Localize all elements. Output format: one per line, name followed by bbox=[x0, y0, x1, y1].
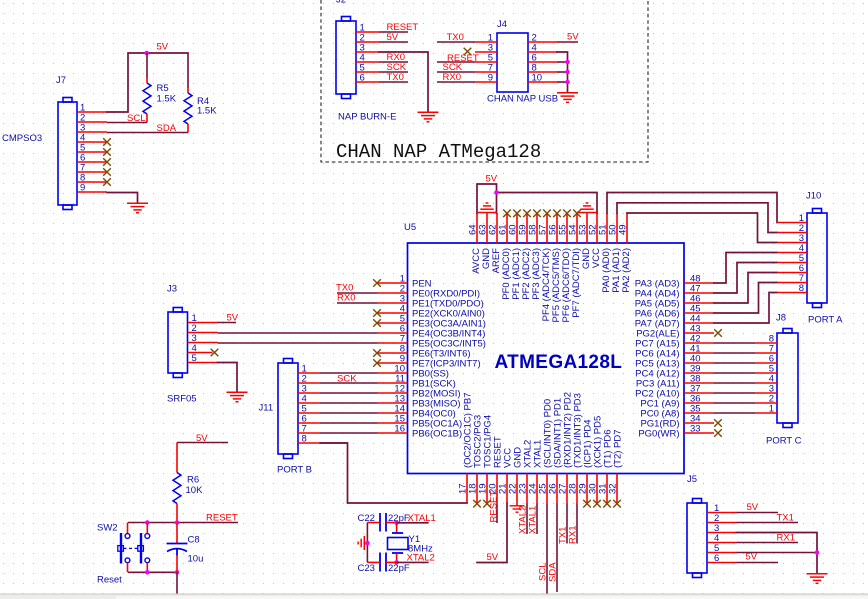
J10 pin 5 bbox=[777, 262, 807, 264]
J4 pin 9 bbox=[475, 81, 497, 83]
junction J4.6 bbox=[565, 60, 570, 65]
U5 pin 48 PA3 (AD3) bbox=[684, 282, 714, 284]
J11 pin 1 bbox=[298, 372, 320, 374]
J4 pin 10 bbox=[528, 81, 557, 83]
wire J11.1 to U5.10 bbox=[320, 372, 378, 374]
wire J4.8 to ground bus bbox=[557, 71, 568, 73]
svg-text:49: 49 bbox=[618, 224, 629, 235]
svg-text:J5: J5 bbox=[687, 474, 697, 485]
svg-text:SRF05: SRF05 bbox=[167, 394, 197, 405]
U5 pin 27 (RXD1/INT2) PD2 bbox=[566, 474, 568, 504]
U5 pin 31 (T1) PD6 bbox=[606, 474, 608, 504]
wire 5V U5.21 VCC bbox=[477, 504, 507, 563]
U5 pin 38 PC3 (A11) bbox=[684, 382, 714, 384]
connector J4 body bbox=[497, 33, 528, 92]
no-connect X on J7 pin 4 bbox=[103, 138, 111, 146]
svg-text:5V: 5V bbox=[746, 552, 758, 563]
no-connect X on U5 bottom pin bbox=[603, 500, 611, 508]
svg-text:PA2 (AD2): PA2 (AD2) bbox=[621, 248, 632, 293]
ground at crystal (rotated left) bbox=[358, 536, 364, 550]
no-connect X on U5 top pin bbox=[573, 210, 581, 218]
junction RESET at R6/C8 bbox=[175, 520, 180, 525]
J5 pin 3 bbox=[707, 532, 737, 534]
wire ground net down bbox=[176, 572, 178, 593]
window edge strip bbox=[0, 594, 868, 599]
U5 pin 36 PC1 (A9) bbox=[684, 402, 714, 404]
no-connect X on U5 left pin bbox=[373, 319, 381, 327]
U5 pin 23 XTAL2 bbox=[526, 474, 528, 504]
wire J11.3 to U5.12 bbox=[320, 392, 378, 394]
junction XTAL2 at C23 bbox=[394, 560, 399, 565]
J11 pin 8 bbox=[298, 442, 320, 444]
svg-text:RX0: RX0 bbox=[337, 293, 355, 304]
svg-text:5V: 5V bbox=[227, 313, 239, 324]
svg-text:J7: J7 bbox=[56, 75, 66, 86]
connector J3 body bbox=[168, 312, 188, 373]
ground at J2 pin3 bbox=[418, 112, 439, 122]
svg-text:J10: J10 bbox=[806, 191, 821, 202]
no-connect X on U5 left pin bbox=[373, 279, 381, 287]
J11 pin 7 bbox=[298, 432, 320, 434]
J4 pin 2 bbox=[528, 41, 557, 43]
wire SDA U5.26 bbox=[556, 504, 558, 593]
svg-text:RESET: RESET bbox=[206, 513, 238, 524]
wire J2.6 bbox=[379, 81, 408, 83]
wire U5.42 to J8.8 bbox=[714, 342, 755, 344]
J5 pin 5 bbox=[707, 552, 737, 554]
U5 pin 53 GND bbox=[586, 213, 588, 243]
J5 pin 4 bbox=[707, 542, 737, 544]
no-connect X on J7 pin 7 bbox=[103, 168, 111, 176]
wire RESET U5.20 bbox=[496, 504, 498, 524]
connector J2 body bbox=[336, 21, 356, 94]
wire U5.41 to J8.7 bbox=[714, 352, 755, 354]
wire TX1 J5.2 bbox=[737, 522, 799, 524]
U5 pin 2 PE0(RXD0/PDI) bbox=[378, 292, 408, 294]
svg-text:5V: 5V bbox=[196, 433, 208, 444]
J7 pin 4 bbox=[77, 141, 107, 143]
connector J11 body bbox=[278, 363, 298, 454]
ground at U5.22 GND (small, rotated) bbox=[516, 504, 518, 506]
wire J3.5 to ground bbox=[218, 363, 238, 393]
wire XTAL2 bbox=[397, 561, 429, 563]
U5 pin 20 RESET bbox=[496, 474, 498, 504]
wire J11.2 to U5.11 bbox=[320, 382, 378, 384]
wire J11.4 to U5.13 bbox=[320, 402, 378, 404]
wire 5V rail at R6 bbox=[177, 442, 228, 444]
wire U5.36 to J8.2 bbox=[714, 402, 755, 404]
wire SDA J7.3 bbox=[107, 132, 188, 134]
wire J2.5 bbox=[379, 71, 408, 73]
U5 pin 35 PC0 (A8) bbox=[684, 412, 714, 414]
svg-text:J3: J3 bbox=[167, 284, 177, 295]
wire J4.4 to ground bus bbox=[557, 52, 568, 93]
J4 pin 8 bbox=[528, 71, 557, 73]
U5 pin 33 PG0(WR) bbox=[684, 432, 714, 434]
wire J2.1 bbox=[379, 31, 408, 33]
J8 pin 3 bbox=[755, 392, 777, 394]
wire XTAL2 U5.23 bbox=[526, 504, 528, 535]
wire SCK J4.7 bbox=[437, 71, 475, 73]
wire U5.38 to J8.4 bbox=[714, 382, 755, 384]
wire J2.4 bbox=[379, 61, 408, 63]
svg-text:9: 9 bbox=[80, 183, 85, 194]
svg-text:R5: R5 bbox=[157, 83, 169, 94]
svg-text:9: 9 bbox=[488, 73, 493, 84]
svg-text:33: 33 bbox=[690, 424, 701, 435]
J8 pin 6 bbox=[755, 362, 777, 364]
wire J5.3 to ground bbox=[737, 533, 818, 574]
U5 pin 19 TOSC1/PG4 bbox=[486, 474, 488, 504]
U5 pin 56 PF5 (ADC5/TMS) bbox=[556, 213, 558, 243]
svg-text:1.5K: 1.5K bbox=[197, 106, 217, 117]
J8 pin 7 bbox=[755, 352, 777, 354]
svg-text:RX1: RX1 bbox=[568, 526, 579, 544]
svg-text:PORT B: PORT B bbox=[277, 465, 312, 476]
wire J4.10 to ground bus bbox=[557, 81, 568, 83]
ground at J4 bbox=[557, 93, 578, 103]
wire RESET rail bbox=[128, 522, 238, 524]
svg-text:5V: 5V bbox=[387, 32, 399, 43]
junction J5.5 bbox=[815, 550, 820, 555]
U5 pin 62 AREF bbox=[496, 213, 498, 243]
U5 pin 15 PB5(OC1A) bbox=[378, 422, 408, 424]
ground at J3.5 bbox=[227, 392, 248, 402]
wire RX1 J5.4 bbox=[737, 542, 799, 544]
J2 pin 2 bbox=[356, 41, 379, 43]
wire U5.40 to J8.6 bbox=[714, 362, 755, 364]
wire J4.6 to ground bus bbox=[557, 61, 568, 63]
wire U5.17 PB7 to J11.8 bbox=[320, 443, 467, 503]
U5 pin 28 (TXD1/INT3) PD3 bbox=[576, 474, 578, 504]
J2 pin 5 bbox=[356, 71, 379, 73]
J3 pin 2 bbox=[188, 332, 218, 334]
no-connect X on J4 pin3 bbox=[464, 48, 472, 56]
U5 pin 45 PA6 (AD6) bbox=[684, 312, 714, 314]
wire J2.2 bbox=[379, 41, 408, 43]
U5 pin 61 PF0 (ADC0) bbox=[506, 213, 508, 243]
resistor R4 bbox=[187, 53, 189, 88]
U5 pin 51 PA0 (AD0) bbox=[606, 213, 608, 243]
wire TX1 U5.27 bbox=[566, 504, 568, 544]
J4 pin 3 bbox=[475, 51, 497, 53]
U5 pin 6 PE4(OC3B/INT4) bbox=[378, 332, 408, 334]
dashed box CHAN NAP ATMega128 block bbox=[321, 0, 648, 162]
wire J2.3 to ground bbox=[379, 52, 428, 112]
U5 pin 59 PF2 (ADC2) bbox=[526, 213, 528, 243]
svg-text:XTAL1: XTAL1 bbox=[408, 513, 436, 524]
U5 pin 47 PA4 (AD4) bbox=[684, 292, 714, 294]
svg-text:5V: 5V bbox=[157, 42, 169, 53]
svg-text:22pF: 22pF bbox=[388, 563, 410, 574]
wire U5.48 to J10.4 bbox=[714, 253, 777, 284]
no-connect X on U5 bottom pin bbox=[483, 500, 491, 508]
no-connect X on U5 right pin bbox=[714, 329, 722, 337]
no-connect X on J7 pin 5 bbox=[103, 148, 111, 156]
U5 pin 16 PB6(OC1B) bbox=[378, 432, 408, 434]
J11 pin 5 bbox=[298, 412, 320, 414]
svg-text:RX1: RX1 bbox=[777, 533, 795, 544]
no-connect X on J7 pin 8 bbox=[103, 178, 111, 186]
switch SW2 bbox=[118, 523, 150, 573]
junction J4.10 bbox=[565, 80, 570, 85]
wire J7.9 to ground bbox=[107, 193, 138, 204]
svg-text:5V: 5V bbox=[487, 552, 499, 563]
IC U5 ATMEGA128L body bbox=[408, 243, 685, 474]
U5 pin 18 TOSC2/PG3 bbox=[476, 474, 478, 504]
svg-text:10K: 10K bbox=[186, 485, 204, 496]
U5 pin 46 PA5 (AD5) bbox=[684, 302, 714, 304]
wire U5.44 to J10.8 bbox=[714, 293, 777, 324]
J8 pin 8 bbox=[755, 342, 777, 344]
svg-text:6: 6 bbox=[360, 73, 365, 84]
svg-text:(T2) PD7: (T2) PD7 bbox=[613, 429, 624, 468]
J4 pin 1 bbox=[475, 41, 497, 43]
svg-text:RESET: RESET bbox=[489, 491, 500, 523]
svg-text:PB6(OC1B): PB6(OC1B) bbox=[412, 429, 462, 440]
no-connect X on U5 top pin bbox=[513, 210, 521, 218]
no-connect X on U5 top pin bbox=[543, 210, 551, 218]
U5 pin 37 PC2 (A10) bbox=[684, 392, 714, 394]
J7 pin 9 bbox=[77, 191, 107, 193]
resistor R5 bbox=[146, 53, 148, 78]
svg-text:SW2: SW2 bbox=[97, 523, 118, 534]
J2 pin 6 bbox=[356, 81, 379, 83]
no-connect X on U5 top pin bbox=[563, 210, 571, 218]
svg-text:SDA: SDA bbox=[157, 123, 177, 134]
U5 pin 29 (ICP1) PD4 bbox=[586, 474, 588, 504]
U5 pin 63 GND bbox=[486, 213, 488, 243]
J5 pin 1 bbox=[707, 512, 737, 514]
resistor R6 bbox=[176, 443, 178, 473]
svg-text:8: 8 bbox=[302, 434, 307, 445]
svg-text:XTAL1: XTAL1 bbox=[528, 506, 539, 534]
svg-text:C22: C22 bbox=[358, 513, 375, 524]
wire J5.5 to ground bus bbox=[737, 552, 818, 554]
U5 pin 24 XTAL1 bbox=[536, 474, 538, 504]
svg-text:U5: U5 bbox=[404, 222, 416, 233]
junction on 5V rail at R5 bbox=[144, 51, 149, 56]
J7 pin 3 bbox=[77, 131, 107, 133]
no-connect X on U5 left pin bbox=[373, 359, 381, 367]
connector J7 body bbox=[58, 102, 77, 205]
J5 pin 2 bbox=[707, 522, 737, 524]
svg-text:CMPSO3: CMPSO3 bbox=[2, 133, 42, 144]
U5 pin 10 PB0(SS) bbox=[378, 372, 408, 374]
wire RX0 J4.9 bbox=[437, 81, 475, 83]
J3 pin 5 bbox=[188, 362, 218, 364]
svg-text:8: 8 bbox=[799, 283, 804, 294]
capacitor C23 bbox=[379, 553, 381, 572]
wire 5V J4.2 bbox=[557, 41, 578, 43]
U5 pin 9 PE7(ICP3/INT7) bbox=[378, 362, 408, 364]
junction SW2 bottom right bbox=[145, 570, 150, 575]
svg-text:Reset: Reset bbox=[97, 575, 122, 586]
U5 pin 11 PB1(SCK) bbox=[378, 382, 408, 384]
svg-text:5V: 5V bbox=[486, 174, 498, 185]
junction RESET at SW2 right bbox=[145, 520, 150, 525]
wire U5.46 to J10.6 bbox=[714, 273, 777, 304]
U5 pin 14 PB4(OC0) bbox=[378, 412, 408, 414]
wire TX0 J4.1 bbox=[437, 41, 475, 43]
wire U5.35 to J8.1 bbox=[714, 412, 755, 414]
no-connect X on U5 left pin bbox=[373, 309, 381, 317]
wire 5V J3.1 bbox=[218, 322, 237, 324]
svg-text:1.5K: 1.5K bbox=[157, 94, 177, 105]
svg-text:SDA: SDA bbox=[548, 562, 559, 582]
wire J3.2 to U5.6 bbox=[218, 332, 378, 334]
J10 pin 6 bbox=[777, 272, 807, 274]
wire J11.7 to U5.16 bbox=[320, 432, 378, 434]
U5 pin 60 PF1 (ADC1) bbox=[516, 213, 518, 243]
ground at U5 pin63 (inverted) bbox=[477, 203, 497, 213]
U5 pin 5 PE3(OC3A/AIN1) bbox=[378, 322, 408, 324]
svg-text:10u: 10u bbox=[188, 554, 204, 565]
capacitor C22 bbox=[379, 513, 381, 532]
wire 5V J5.6 bbox=[737, 562, 779, 564]
wire PA1 U5.50 to J10.2 bbox=[617, 203, 777, 233]
wire SW2 bottom to C8 bbox=[128, 571, 177, 573]
wire U5.37 to J8.3 bbox=[714, 392, 755, 394]
junction 5V at AREF riser bbox=[494, 190, 499, 195]
svg-text:TX1: TX1 bbox=[777, 513, 794, 524]
U5 pin 30 (XCK1) PD5 bbox=[596, 474, 598, 504]
wire J7.1 to 5V rail bbox=[107, 53, 188, 112]
svg-text:SCK: SCK bbox=[337, 374, 357, 385]
J8 pin 1 bbox=[755, 412, 777, 414]
U5 pin 44 PA7 (AD7) bbox=[684, 322, 714, 324]
junction at C8 bottom bbox=[175, 570, 180, 575]
wire XTAL1 U5.24 bbox=[536, 504, 538, 535]
svg-text:5V: 5V bbox=[567, 32, 579, 43]
wire J11.5 to U5.14 bbox=[320, 412, 378, 414]
J11 pin 3 bbox=[298, 392, 320, 394]
wire SCL J7.2 bbox=[107, 122, 147, 124]
U5 pin 12 PB2(MOSI) bbox=[378, 392, 408, 394]
wire U5.45 to J10.7 bbox=[714, 283, 777, 314]
J2 pin 4 bbox=[356, 61, 379, 63]
U5 pin 40 PC5 (A13) bbox=[684, 362, 714, 364]
wire PA2 U5.49 to J10.3 bbox=[627, 213, 777, 243]
U5 pin 43 PG2(ALE) bbox=[684, 332, 714, 334]
J3 pin 3 bbox=[188, 342, 218, 344]
J2 pin 1 bbox=[356, 31, 379, 33]
U5 pin 39 PC4 (A12) bbox=[684, 372, 714, 374]
svg-text:TX0: TX0 bbox=[387, 72, 404, 83]
no-connect X on J3 pin4 bbox=[211, 349, 219, 357]
svg-text:10: 10 bbox=[532, 73, 543, 84]
ground at J5 bbox=[807, 574, 828, 584]
no-connect X on U5 top pin bbox=[503, 210, 511, 218]
svg-text:R6: R6 bbox=[187, 475, 199, 486]
U5 pin 13 PB3(MISO) bbox=[378, 402, 408, 404]
J4 pin 7 bbox=[475, 71, 497, 73]
connector J10 body bbox=[807, 213, 827, 303]
connector J8 body bbox=[777, 333, 798, 423]
connector J5 body bbox=[687, 503, 707, 573]
wire J11.6 to U5.15 bbox=[320, 422, 378, 424]
svg-text:32: 32 bbox=[608, 483, 619, 494]
junction ground tap bbox=[365, 541, 370, 546]
J10 pin 7 bbox=[777, 282, 807, 284]
J7 pin 2 bbox=[77, 121, 107, 123]
svg-text:NAP BURN-E: NAP BURN-E bbox=[338, 112, 396, 123]
wire PA0 U5.51 to J10.1 bbox=[607, 193, 777, 223]
U5 pin 8 PE6(T3/INT6) bbox=[378, 352, 408, 354]
J3 pin 4 bbox=[188, 352, 213, 354]
U5 pin 50 PA1 (AD1) bbox=[616, 213, 618, 243]
no-connect X on U5 top pin bbox=[553, 210, 561, 218]
J10 pin 1 bbox=[777, 222, 807, 224]
U5 pin 41 PC6 (A14) bbox=[684, 352, 714, 354]
svg-text:C8: C8 bbox=[188, 535, 200, 546]
svg-text:XTAL2: XTAL2 bbox=[407, 553, 435, 564]
svg-text:J8: J8 bbox=[776, 313, 786, 324]
svg-text:C23: C23 bbox=[358, 563, 375, 574]
svg-text:16: 16 bbox=[394, 424, 405, 435]
wire RESET J4.5 bbox=[437, 61, 475, 63]
U5 pin 55 PF6 (ADC6/TDO) bbox=[566, 213, 568, 243]
svg-text:CHAN NAP ATMega128: CHAN NAP ATMega128 bbox=[336, 141, 541, 163]
wire U5.39 to J8.5 bbox=[714, 372, 755, 374]
U5 pin 58 PF3 (ADC3) bbox=[536, 213, 538, 243]
ground at J7 pin9 bbox=[127, 203, 148, 213]
no-connect X on U5 right pin bbox=[714, 419, 722, 427]
J8 pin 4 bbox=[755, 382, 777, 384]
wire 5V J5.1 bbox=[737, 512, 779, 514]
svg-text:5: 5 bbox=[192, 353, 197, 364]
J10 pin 3 bbox=[777, 242, 807, 244]
wire TX0 to U5.2 bbox=[337, 292, 378, 294]
svg-text:PORT C: PORT C bbox=[766, 436, 802, 447]
wire RX1 U5.28 bbox=[576, 504, 578, 544]
J5 pin 6 bbox=[707, 562, 737, 564]
svg-text:ATMEGA128L: ATMEGA128L bbox=[495, 352, 623, 373]
U5 pin 52 VCC bbox=[596, 213, 598, 243]
crystal Y1 bbox=[396, 523, 398, 533]
J7 pin 5 bbox=[77, 151, 107, 153]
U5 pin 22 GND bbox=[516, 474, 518, 504]
U5 pin 57 PF4 (ADC4/TCK) bbox=[546, 213, 548, 243]
U5 pin 42 PC7 (A15) bbox=[684, 342, 714, 344]
U5 pin 34 PG1(RD) bbox=[684, 422, 714, 424]
svg-text:PORT A: PORT A bbox=[808, 315, 843, 326]
U5 pin 32 (T2) PD7 bbox=[616, 474, 618, 504]
svg-text:5V: 5V bbox=[747, 502, 759, 513]
J11 pin 6 bbox=[298, 422, 320, 424]
no-connect X on U5 bottom pin bbox=[613, 500, 621, 508]
no-connect X on U5 left pin bbox=[373, 349, 381, 357]
U5 pin 7 PE5(OC3C/INT5) bbox=[378, 342, 408, 344]
no-connect X on J7 pin 6 bbox=[103, 158, 111, 166]
svg-text:1: 1 bbox=[769, 404, 774, 415]
wire SCL U5.25 bbox=[546, 504, 548, 594]
J4 pin 6 bbox=[528, 61, 557, 63]
J10 pin 8 bbox=[777, 292, 807, 294]
J10 pin 2 bbox=[777, 232, 807, 234]
wire RX0 to U5.3 bbox=[337, 302, 378, 304]
J3 pin 1 bbox=[188, 322, 218, 324]
no-connect X on U5 bottom pin bbox=[583, 500, 591, 508]
svg-text:J4: J4 bbox=[497, 19, 507, 30]
junction J4.8 bbox=[565, 70, 570, 75]
svg-text:CHAN NAP USB: CHAN NAP USB bbox=[487, 94, 558, 105]
svg-text:J2: J2 bbox=[336, 0, 346, 6]
U5 pin 17 (OC2/OC1C) PB7 bbox=[466, 474, 468, 504]
wire U5.47 to J10.5 bbox=[714, 263, 777, 294]
U5 pin 4 PE2(XCK0/AIN0) bbox=[378, 312, 408, 314]
svg-text:J11: J11 bbox=[259, 403, 274, 414]
